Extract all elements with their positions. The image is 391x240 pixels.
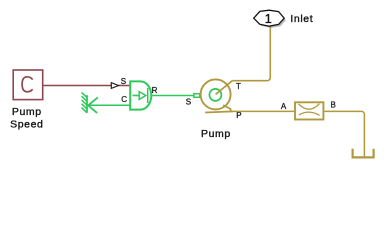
wire pump P to orifice A xyxy=(231,110,294,112)
svg-text:S: S xyxy=(186,98,191,107)
wire reference to source port C xyxy=(87,104,130,106)
mechanical rotational reference (ground) xyxy=(82,92,98,113)
tank / reservoir xyxy=(353,149,374,158)
svg-text:Inlet: Inlet xyxy=(290,13,313,25)
svg-text:B: B xyxy=(331,100,336,109)
ideal angular velocity source U2 (D-shaped block) xyxy=(130,81,151,109)
svg-text:T: T xyxy=(236,82,241,91)
hexagon connection port 1 (shadow) xyxy=(256,12,286,28)
orifice / local restriction xyxy=(295,102,323,119)
svg-text:R: R xyxy=(152,86,158,95)
wire pump T up to Inlet port xyxy=(232,26,270,80)
svg-text:1: 1 xyxy=(265,11,272,26)
label Pump Speed xyxy=(10,106,43,130)
block Pump Speed (constant C) xyxy=(13,70,43,100)
wire source R to pump S xyxy=(151,95,193,97)
svg-text:C: C xyxy=(121,95,127,104)
svg-text:S: S xyxy=(121,77,126,86)
svg-text:A: A xyxy=(281,102,287,111)
svg-text:Pump: Pump xyxy=(12,106,42,118)
wire orifice B down to tank xyxy=(324,111,364,156)
svg-text:Speed: Speed xyxy=(10,119,43,131)
wire signal Pump Speed to source port S xyxy=(43,85,130,87)
pump shaft port stub S xyxy=(194,94,200,98)
pump (fixed-displacement) xyxy=(201,79,233,112)
arrowhead signal into S xyxy=(111,83,118,89)
svg-text:P: P xyxy=(236,111,241,120)
hexagon connection port 1 Inlet xyxy=(254,10,285,26)
svg-text:Pump: Pump xyxy=(201,128,231,140)
